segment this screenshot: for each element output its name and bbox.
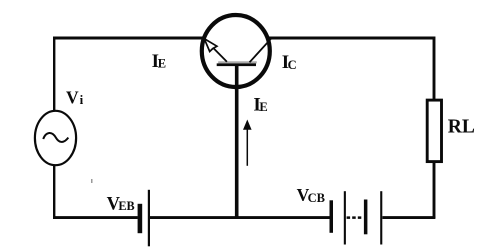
svg-text:C: C: [288, 58, 297, 72]
svg-text:E: E: [259, 100, 267, 114]
svg-text:E: E: [158, 57, 166, 71]
svg-text:CB: CB: [308, 191, 325, 205]
svg-text:EB: EB: [118, 199, 134, 213]
svg-text:RL: RL: [448, 117, 475, 138]
svg-text:V: V: [66, 87, 79, 107]
svg-text:i: i: [80, 92, 84, 107]
